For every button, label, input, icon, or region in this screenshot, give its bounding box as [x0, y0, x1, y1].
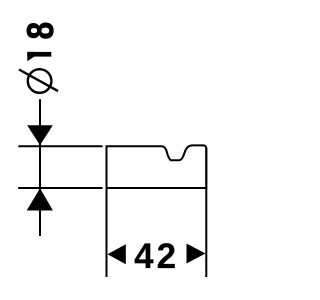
svg-text:4: 4 [134, 237, 154, 276]
svg-text:2: 2 [157, 237, 176, 276]
svg-text:8: 8 [21, 22, 62, 39]
